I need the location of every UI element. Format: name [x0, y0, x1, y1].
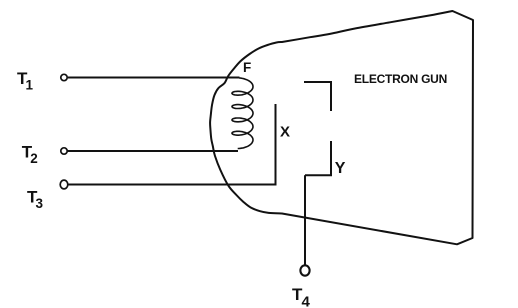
plate Y upper [304, 82, 331, 111]
svg-text:ELECTRON GUN: ELECTRON GUN [354, 72, 447, 86]
filament coil F [232, 78, 253, 149]
wire T3 and plate X [69, 104, 276, 185]
terminal T3 [60, 180, 68, 189]
svg-text:3: 3 [36, 196, 44, 211]
terminal T2 [61, 148, 67, 154]
plate Y lower [305, 141, 331, 175]
svg-text:1: 1 [26, 78, 34, 93]
wire Y to T4 [304, 175, 306, 265]
svg-text:2: 2 [30, 151, 38, 166]
svg-text:X: X [280, 124, 290, 141]
terminal T1 [61, 74, 67, 80]
wire T2 to filament [68, 150, 239, 152]
terminal T4 [300, 265, 309, 275]
label T2 [22, 143, 38, 166]
svg-text:4: 4 [302, 294, 311, 308]
label T1 [17, 69, 34, 93]
label T4 [292, 285, 311, 308]
svg-text:Y: Y [335, 160, 346, 177]
CRT envelope outline [210, 11, 473, 244]
label T3 [27, 188, 44, 212]
wire T1 to filament [68, 77, 240, 79]
svg-text:F: F [243, 60, 251, 75]
